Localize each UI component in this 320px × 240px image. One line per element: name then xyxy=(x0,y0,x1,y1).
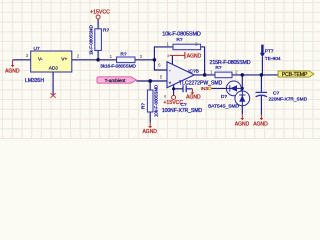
wire: node down to diode D? xyxy=(241,75,243,91)
svg-text:10k-F-0805SMD: 10k-F-0805SMD xyxy=(154,85,159,117)
wire: +15VCC circle to R1k top xyxy=(97,19,99,29)
svg-text:IC?B: IC?B xyxy=(188,68,199,74)
junction node A xyxy=(96,58,100,62)
svg-text:R?: R? xyxy=(103,28,109,34)
svg-text:ADJ: ADJ xyxy=(49,66,59,72)
svg-text:220NF-X7R_SMD: 220NF-X7R_SMD xyxy=(269,97,308,103)
wire: R 215R pin 2 to port PCB-TEMP xyxy=(232,74,278,76)
net label T-ambient xyxy=(97,77,137,83)
svg-text:AGND: AGND xyxy=(253,121,268,127)
svg-text:C?: C? xyxy=(273,90,279,96)
junction node C xyxy=(148,79,152,83)
resistor R? 215R-F-0805SMD xyxy=(210,60,251,78)
wire: branch to C 100NF xyxy=(174,88,183,90)
wire: LM335 pin 2 to R 3k16 pin 1 xyxy=(72,59,117,61)
capacitor C? 100NF-X7R_SMD xyxy=(162,85,203,114)
svg-text:+15VCC: +15VCC xyxy=(90,10,110,16)
resistor R? 1k-F-0805SMD xyxy=(89,25,110,55)
wire: T-ambient to op-amp pin 5 xyxy=(137,80,168,82)
svg-text:V-: V- xyxy=(38,56,43,62)
svg-text:100NF-X7R_SMD: 100NF-X7R_SMD xyxy=(162,108,203,114)
svg-text:+: + xyxy=(169,81,172,86)
junction node D xyxy=(203,73,207,77)
wire: op-amp bottom power pin xyxy=(173,85,175,96)
junction node E xyxy=(241,73,245,77)
ground AGND below diode xyxy=(235,114,250,127)
wire: node down to C 220NF xyxy=(260,75,262,92)
svg-text:R?: R? xyxy=(141,103,146,109)
svg-text:AGND: AGND xyxy=(187,53,202,59)
svg-text:R?: R? xyxy=(215,65,221,71)
wire: node up to feedback R 10k pin 1 xyxy=(154,47,173,60)
wire: op-amp top power pin xyxy=(171,55,173,64)
wire: diode right lead xyxy=(241,87,242,89)
ground AGND below capacitor xyxy=(253,115,268,128)
wire: op-amp output to R 215R pin 1 xyxy=(194,74,215,76)
svg-text:3k16-F-0805SMD: 3k16-F-0805SMD xyxy=(100,64,136,69)
temperature sensor U7 LM335H xyxy=(25,46,72,84)
svg-text:BAT54S_SMD: BAT54S_SMD xyxy=(208,104,239,110)
svg-text:AGND: AGND xyxy=(235,121,250,127)
wire: R 10k pin 2 down to output node xyxy=(201,47,205,75)
no-ERC cross on ADJ pin xyxy=(51,93,56,98)
junction node G xyxy=(172,87,175,90)
svg-text:R?: R? xyxy=(120,51,126,57)
net label IN3 with no-ERC marker xyxy=(201,86,211,91)
wire: node down to op-amp pin 6 xyxy=(154,60,167,70)
svg-text:AGND: AGND xyxy=(5,69,20,75)
svg-text:215R-F-0805SMD: 215R-F-0805SMD xyxy=(210,60,251,66)
svg-text:V+: V+ xyxy=(61,56,67,62)
wire: C 220NF bottom to AGND xyxy=(260,96,262,115)
power port +15VCC at op-amp bottom xyxy=(163,93,183,106)
junction node B xyxy=(153,58,157,62)
junction node F xyxy=(260,73,264,77)
power port +15VCC top xyxy=(90,10,110,19)
resistor R? 10k-F-0805SMD feedback xyxy=(162,32,201,50)
wire: connector PT7 pin down xyxy=(261,57,263,75)
wire: R bottom to AGND xyxy=(149,112,151,123)
wire: AGND to LM335 pin 3 xyxy=(13,59,31,61)
wire: R1k bottom to main row xyxy=(97,50,99,59)
svg-text:U7: U7 xyxy=(34,46,40,52)
svg-text:LM335H: LM335H xyxy=(25,78,44,84)
junction node H xyxy=(241,87,244,90)
ground AGND below bottom resistor xyxy=(142,123,157,136)
svg-text:AGND: AGND xyxy=(186,95,201,101)
wire: node down to R bottom xyxy=(149,81,151,90)
ground AGND at C 100NF xyxy=(186,89,201,101)
ground AGND left xyxy=(5,60,20,75)
svg-text:R?: R? xyxy=(176,37,182,43)
op-amp IC?B TLC2272PW_SMD xyxy=(167,62,223,88)
svg-text:AGND: AGND xyxy=(142,129,157,135)
svg-text:TE-904: TE-904 xyxy=(265,56,281,62)
resistor R? 3k16-F-0805SMD xyxy=(100,51,136,68)
connector PT7 TE 904 xyxy=(260,45,281,62)
wire: R 3k16 pin 2 to node xyxy=(135,59,154,61)
svg-text:D?: D? xyxy=(221,94,227,100)
capacitor C? 220NF-X7R_SMD xyxy=(256,90,308,102)
svg-text:IN3: IN3 xyxy=(201,86,209,91)
svg-text:PT7: PT7 xyxy=(265,49,274,55)
power port AGND at op-amp top (bar style) xyxy=(167,52,202,59)
svg-text:10k-F-0805SMD: 10k-F-0805SMD xyxy=(162,32,201,38)
wire: C 100NF to AGND xyxy=(186,88,192,90)
wire: diode bottom to AGND xyxy=(241,106,243,115)
port PCB-TEMP xyxy=(278,71,314,78)
wire: LM335 ADJ pin down xyxy=(52,72,54,96)
svg-text:T-ambient: T-ambient xyxy=(105,78,127,83)
wire: IN3 stub to diode left xyxy=(211,87,228,89)
diode D? BAT54S_SMD xyxy=(208,81,250,110)
svg-text:PCB-TEMP: PCB-TEMP xyxy=(282,72,308,78)
svg-text:1k-F-0805SMD: 1k-F-0805SMD xyxy=(89,25,94,55)
resistor R? to ground (vertical) xyxy=(141,85,159,117)
